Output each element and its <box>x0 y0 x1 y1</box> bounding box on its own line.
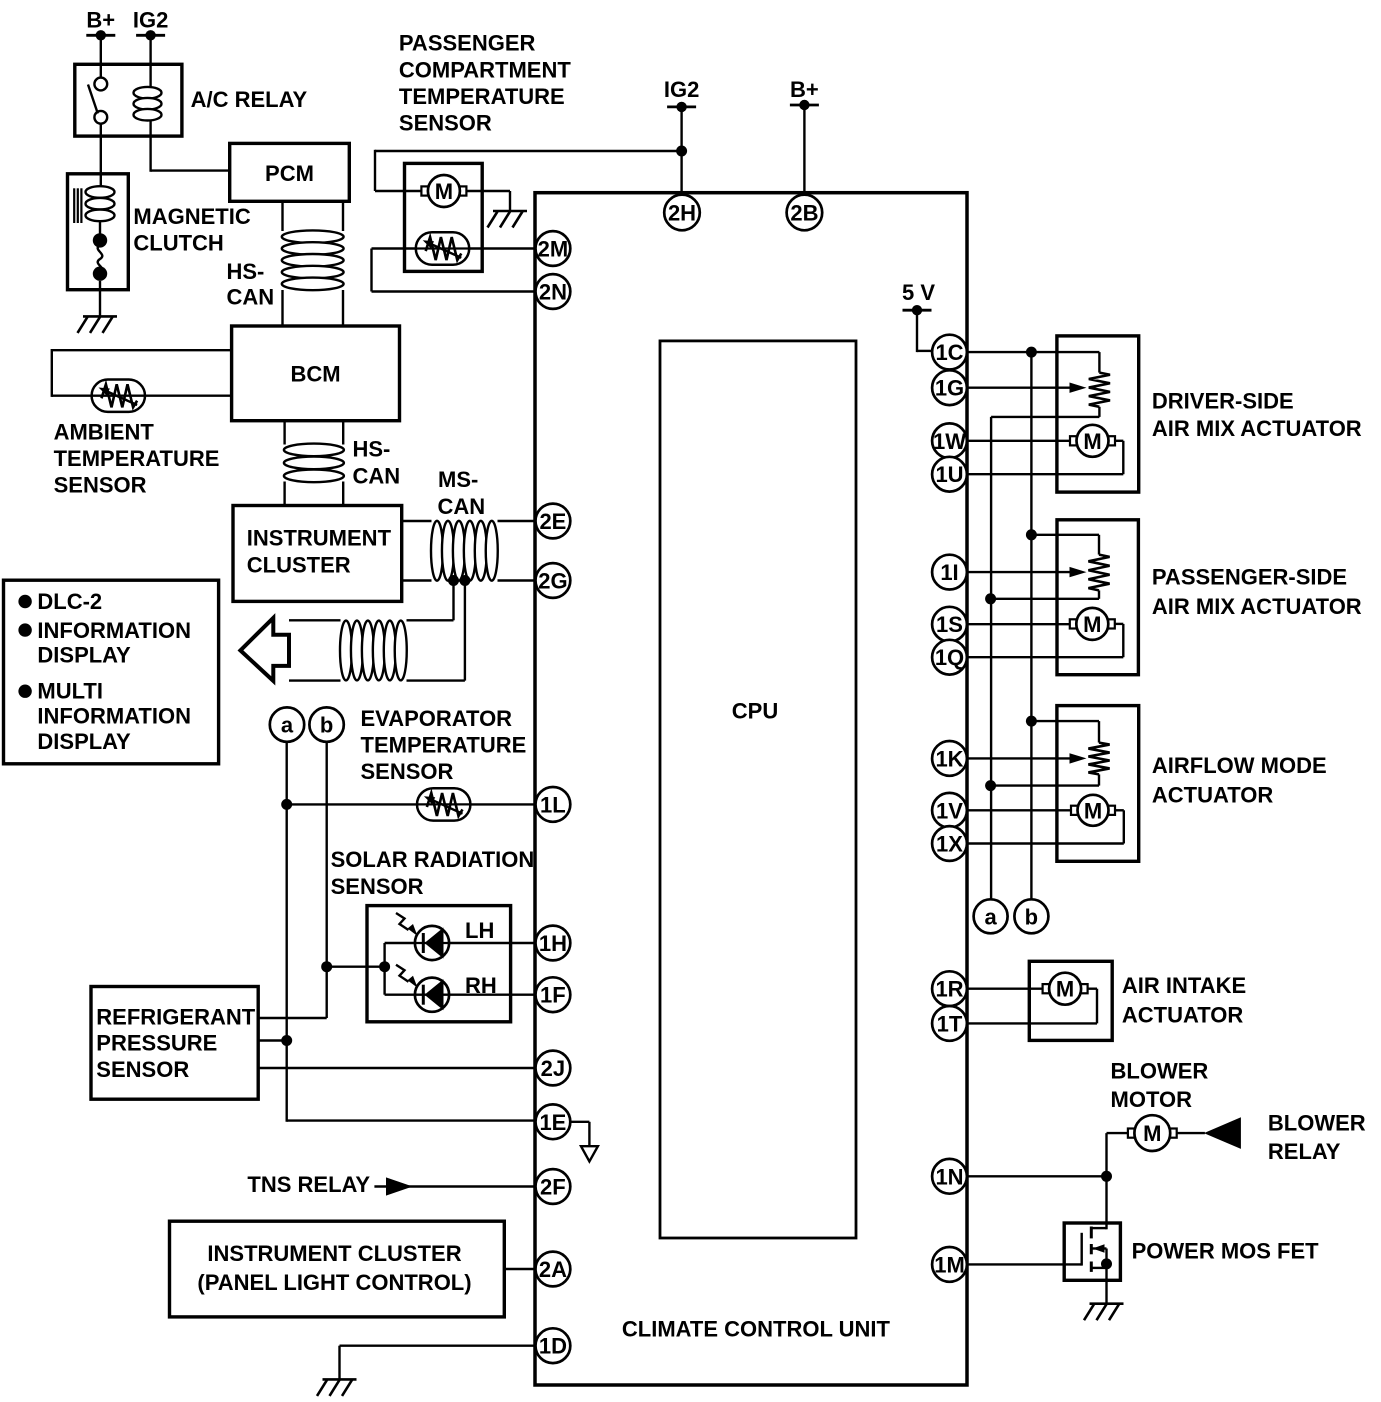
svg-text:BCM: BCM <box>290 362 340 387</box>
A/C relay switch contact <box>94 78 107 91</box>
svg-text:1F: 1F <box>540 983 566 1008</box>
MOSFET Q1 channel <box>1090 1227 1093 1239</box>
wire B+ to pin 2B <box>803 105 805 195</box>
pin 1C <box>932 335 967 370</box>
wire 5V to pin 1C <box>916 310 918 352</box>
airflow potentiometer R3 <box>1088 743 1109 775</box>
svg-text:1X: 1X <box>936 832 963 857</box>
svg-text:M: M <box>1056 977 1074 1002</box>
arrowhead 1G wiper <box>1070 383 1087 393</box>
wire pin 1N to blower line <box>967 1175 1107 1177</box>
pin 2J <box>536 1051 571 1086</box>
svg-text:b: b <box>1025 904 1038 929</box>
A/C relay coil <box>134 87 162 99</box>
svg-text:TEMPERATURE: TEMPERATURE <box>399 84 565 109</box>
svg-text:B+: B+ <box>86 8 115 33</box>
wire pin 1D to ground <box>340 1344 536 1346</box>
MOSFET Q1 drain stub <box>1091 1227 1106 1229</box>
svg-text:1S: 1S <box>936 612 963 637</box>
ambient temperature sensor thermistor <box>92 380 145 412</box>
arrowhead 1I wiper <box>1070 567 1087 577</box>
svg-text:AIR MIX ACTUATOR: AIR MIX ACTUATOR <box>1152 594 1362 619</box>
junction dot blower <box>1101 1171 1112 1182</box>
ground below 1D <box>323 1378 357 1381</box>
junction dot a-line at 1L wire <box>281 799 292 810</box>
svg-text:PASSENGER-SIDE: PASSENGER-SIDE <box>1152 565 1347 590</box>
svg-text:MULTI: MULTI <box>37 679 103 704</box>
wire fan motor to ground <box>466 190 510 192</box>
HS-CAN twisted pair PCM-BCM <box>282 230 344 243</box>
power MOS FET box <box>1064 1223 1120 1280</box>
A/C relay K1 box <box>75 64 182 136</box>
wire refrigerant sensor middle to a-line <box>258 1039 287 1041</box>
wire HS-CAN pair PCM to BCM <box>281 201 283 231</box>
node b (left) <box>309 707 343 741</box>
pin 2M <box>536 231 571 266</box>
wire pin 1C to driver potentiometer <box>967 351 1099 353</box>
wire b-line <box>1030 352 1032 900</box>
MOSFET Q1 source stub <box>1091 1267 1106 1269</box>
svg-text:1G: 1G <box>935 376 964 401</box>
wire thermistor to pin 2N <box>372 247 418 249</box>
block arrow to DLC-2 devices <box>240 618 289 681</box>
wire ambient temperature sensor loop <box>52 349 232 351</box>
svg-text:CAN: CAN <box>227 285 275 310</box>
svg-text:ACTUATOR: ACTUATOR <box>1152 782 1274 807</box>
passenger compartment thermistor <box>416 232 469 264</box>
svg-text:RH: RH <box>465 973 497 998</box>
wire evaporator sensor to pin 1L <box>287 803 536 805</box>
junction dot b-line at solar sensor wire <box>321 961 332 972</box>
wire LH photodiode to pin 1H <box>385 942 536 944</box>
svg-text:A/C RELAY: A/C RELAY <box>191 87 308 112</box>
node a (right) <box>974 899 1008 933</box>
svg-text:MOTOR: MOTOR <box>1111 1087 1193 1112</box>
svg-text:b: b <box>320 713 333 738</box>
junction dot MS-CAN tap 1 <box>448 575 459 586</box>
climate control unit box <box>535 193 967 1385</box>
pin 2F <box>536 1169 571 1204</box>
pin 1D <box>536 1328 571 1363</box>
wire MS-CAN tap drops <box>452 581 454 621</box>
junction dot IG2-sensor <box>676 146 687 157</box>
wire b-line down <box>326 741 328 1018</box>
pin 2H <box>664 195 700 231</box>
svg-text:SENSOR: SENSOR <box>361 759 454 784</box>
junction dot solar common <box>379 961 390 972</box>
wire pin 1V to airflow motor <box>967 809 1071 811</box>
wire pin 1I wiper <box>967 571 1072 573</box>
bullet INFORMATION DISPLAY <box>18 623 31 636</box>
svg-text:TEMPERATURE: TEMPERATURE <box>54 446 220 471</box>
pin 2G <box>536 563 571 598</box>
wire a-line down to 1E row <box>286 741 288 1122</box>
pin 1M <box>932 1247 967 1282</box>
svg-text:DLC-2: DLC-2 <box>37 589 102 614</box>
svg-text:CLIMATE CONTROL UNIT: CLIMATE CONTROL UNIT <box>622 1317 891 1342</box>
svg-text:POWER MOS FET: POWER MOS FET <box>1132 1238 1320 1263</box>
wire TNS relay to pin 2F <box>374 1185 535 1187</box>
pin 1U <box>932 457 967 492</box>
MS-CAN twisted pair to DLC <box>340 621 352 681</box>
magnetic clutch box <box>68 174 129 290</box>
svg-text:ACTUATOR: ACTUATOR <box>1122 1003 1244 1028</box>
svg-text:INFORMATION: INFORMATION <box>37 704 191 729</box>
wire pin 1S to passenger motor <box>967 623 1071 625</box>
magnetic clutch coil <box>86 186 115 198</box>
wire refrigerant sensor top to b-line <box>258 1017 327 1019</box>
junction dot passenger a-line <box>985 593 996 604</box>
junction dot MOSFET source <box>1101 1258 1112 1269</box>
air intake motor <box>1043 984 1050 993</box>
svg-text:SOLAR RADIATION: SOLAR RADIATION <box>331 847 535 872</box>
junction dot airflow a-line <box>985 780 996 791</box>
wire blower motor to 1N line <box>1107 1132 1129 1134</box>
svg-text:1Q: 1Q <box>935 645 964 670</box>
svg-text:BLOWER: BLOWER <box>1111 1059 1209 1084</box>
wire a-line <box>990 417 992 900</box>
svg-text:2J: 2J <box>541 1056 565 1081</box>
svg-text:M: M <box>1084 798 1102 823</box>
pin 2E <box>536 504 571 539</box>
arrowhead TNS relay <box>386 1177 413 1195</box>
wire intake motor to pin 1T <box>1087 988 1097 990</box>
MOSFET Q1 body arrow <box>1091 1247 1106 1249</box>
MS-CAN twisted pair cluster-CCU <box>431 521 443 581</box>
magnetic clutch core <box>73 188 75 223</box>
svg-text:DRIVER-SIDE: DRIVER-SIDE <box>1152 389 1294 414</box>
svg-text:SENSOR: SENSOR <box>331 874 424 899</box>
svg-text:1W: 1W <box>933 429 966 454</box>
svg-text:1C: 1C <box>935 340 963 365</box>
junction dot 1C b-line <box>1026 347 1037 358</box>
node B+ terminal (top middle) <box>790 104 819 107</box>
svg-text:2G: 2G <box>538 569 567 594</box>
svg-text:1I: 1I <box>940 560 958 585</box>
svg-text:CAN: CAN <box>353 463 401 488</box>
svg-text:IG2: IG2 <box>133 8 168 33</box>
airflow mode actuator box <box>1057 706 1139 862</box>
junction dot a-line refrigerant <box>281 1035 292 1046</box>
svg-text:2E: 2E <box>539 509 566 534</box>
svg-text:DISPLAY: DISPLAY <box>37 643 131 668</box>
svg-text:1L: 1L <box>540 792 566 817</box>
wire pin 1E offpage stub <box>570 1121 589 1123</box>
CPU box <box>660 341 856 1238</box>
pin 1K <box>932 741 967 776</box>
svg-text:LH: LH <box>465 918 494 943</box>
svg-text:MS-: MS- <box>438 467 478 492</box>
svg-text:MAGNETIC: MAGNETIC <box>133 204 250 229</box>
arrowhead 1K wiper <box>1070 753 1087 763</box>
airflow mode motor <box>1071 806 1078 815</box>
svg-text:1K: 1K <box>935 746 963 771</box>
wire driver pot bottom to a-line <box>1098 407 1100 417</box>
svg-text:AIRFLOW MODE: AIRFLOW MODE <box>1152 753 1327 778</box>
passenger-side actuator box <box>1057 520 1138 675</box>
wire MOSFET source to ground <box>1105 1249 1107 1304</box>
photodiode RH <box>415 978 449 1012</box>
pin 1V <box>932 793 967 828</box>
passenger air mix motor <box>1070 619 1077 628</box>
DLC-2 list box <box>4 580 219 764</box>
wire MS-CAN high to pin 2E <box>402 520 432 522</box>
node IG2 terminal (top left) <box>136 34 165 37</box>
svg-text:2M: 2M <box>538 237 569 262</box>
svg-text:RELAY: RELAY <box>1268 1139 1341 1164</box>
wire into blower fan motor <box>375 190 422 192</box>
wire thermistor to pin 2M <box>469 247 536 249</box>
pin 2B <box>787 195 823 231</box>
node a (left) <box>270 707 304 741</box>
svg-text:PRESSURE: PRESSURE <box>96 1030 217 1055</box>
svg-text:COMPARTMENT: COMPARTMENT <box>399 58 571 83</box>
wire HS-CAN pair BCM to instrument cluster <box>283 421 285 445</box>
wire pin 1G wiper <box>967 387 1072 389</box>
svg-text:1D: 1D <box>539 1334 567 1359</box>
svg-text:2B: 2B <box>790 201 818 226</box>
svg-text:CLUSTER: CLUSTER <box>247 553 351 578</box>
wire IG2 to pin 2H <box>680 107 682 195</box>
pin 1G <box>932 370 967 405</box>
svg-text:TEMPERATURE: TEMPERATURE <box>361 732 527 757</box>
svg-text:IG2: IG2 <box>664 77 699 102</box>
pin 1W <box>932 423 967 458</box>
pin 1Q <box>932 640 967 675</box>
svg-text:SENSOR: SENSOR <box>54 473 147 498</box>
wire airflow pot bottom to a-line <box>1098 774 1100 785</box>
svg-text:TNS RELAY: TNS RELAY <box>247 1172 370 1197</box>
solar radiation sensor box <box>367 906 511 1022</box>
svg-text:1R: 1R <box>935 977 963 1002</box>
photodiode LH <box>415 926 449 960</box>
magnetic clutch contact dots and wavy link <box>99 221 101 235</box>
wire passenger motor to pin 1Q <box>1114 623 1123 625</box>
BCM box <box>232 326 400 421</box>
svg-text:5 V: 5 V <box>902 280 935 305</box>
bullet MULTI INFORMATION DISPLAY <box>18 685 31 698</box>
wire pin 1M to MOSFET gate <box>967 1263 1082 1265</box>
wire switch to magnetic clutch <box>100 124 102 190</box>
svg-text:1M: 1M <box>934 1252 965 1277</box>
svg-text:REFRIGERANT: REFRIGERANT <box>96 1004 255 1029</box>
pin 1F <box>536 977 571 1012</box>
svg-text:CAN: CAN <box>438 494 486 519</box>
svg-text:a: a <box>984 904 997 929</box>
pin 1T <box>932 1006 967 1041</box>
arrowhead from blower relay <box>1204 1117 1241 1149</box>
node IG2 terminal (top middle) <box>667 106 696 109</box>
wire airflow pot feed <box>1031 720 1099 722</box>
svg-text:DISPLAY: DISPLAY <box>37 729 131 754</box>
pin 1I <box>932 555 967 590</box>
wire solar common vertical <box>383 943 385 995</box>
svg-text:AMBIENT: AMBIENT <box>54 419 155 444</box>
evaporator temperature sensor thermistor <box>417 788 470 820</box>
pin 1S <box>932 607 967 642</box>
junction dot passenger feed <box>1026 529 1037 540</box>
pin 1X <box>932 826 967 861</box>
svg-text:INSTRUMENT: INSTRUMENT <box>247 525 392 550</box>
pin 1R <box>932 971 967 1006</box>
svg-text:1E: 1E <box>539 1110 566 1135</box>
node B+ terminal (top left) <box>86 34 115 37</box>
node 5V terminal <box>903 309 932 312</box>
MOSFET Q1 gate <box>1080 1233 1082 1266</box>
refrigerant pressure sensor box <box>91 987 258 1100</box>
instrument cluster box <box>233 506 402 602</box>
driver air mix motor <box>1070 436 1077 445</box>
ground fan motor <box>493 210 527 213</box>
PCM box <box>230 143 350 201</box>
bullet DLC-2 <box>18 595 31 608</box>
instrument cluster panel light box <box>170 1221 505 1317</box>
wire IG2 down through A/C relay coil to PCM <box>149 35 151 172</box>
svg-text:INFORMATION: INFORMATION <box>37 618 191 643</box>
svg-text:(PANEL LIGHT CONTROL): (PANEL LIGHT CONTROL) <box>197 1270 471 1295</box>
svg-text:2H: 2H <box>668 201 696 226</box>
svg-text:PCM: PCM <box>265 161 314 186</box>
wire MS-CAN stub pair high <box>289 619 341 621</box>
svg-text:SENSOR: SENSOR <box>399 111 492 136</box>
pin 2A <box>536 1252 571 1287</box>
svg-text:1U: 1U <box>935 462 963 487</box>
node b (right) <box>1014 899 1048 933</box>
svg-text:HS-: HS- <box>227 259 265 284</box>
wire MS-CAN stub pair low <box>289 679 341 681</box>
wire pin 1W to driver motor <box>967 440 1071 442</box>
wire passenger pot bottom to a-line <box>1098 590 1100 598</box>
wire sensor loop to IG2 node <box>375 150 682 152</box>
wire passenger pot feed <box>1031 534 1099 536</box>
ground below magnetic clutch <box>83 315 117 318</box>
passenger compartment fan motor <box>421 186 428 195</box>
pin 1E <box>536 1104 571 1139</box>
ground below MOSFET <box>1090 1302 1124 1305</box>
svg-text:M: M <box>1143 1121 1161 1146</box>
wire B+ to A/C relay switch <box>100 35 102 78</box>
svg-text:SENSOR: SENSOR <box>96 1057 189 1082</box>
svg-text:AIR INTAKE: AIR INTAKE <box>1122 973 1246 998</box>
blower motor <box>1128 1129 1135 1138</box>
svg-text:HS-: HS- <box>353 437 391 462</box>
svg-text:B+: B+ <box>790 77 819 102</box>
svg-text:CLUTCH: CLUTCH <box>133 231 223 256</box>
svg-text:AIR MIX ACTUATOR: AIR MIX ACTUATOR <box>1152 416 1362 441</box>
offpage triangle below 1E <box>581 1146 598 1161</box>
svg-text:2A: 2A <box>539 1257 567 1282</box>
svg-text:1H: 1H <box>539 931 567 956</box>
svg-text:EVAPORATOR: EVAPORATOR <box>361 706 513 731</box>
driver-side actuator box <box>1057 336 1139 492</box>
svg-text:BLOWER: BLOWER <box>1268 1111 1366 1136</box>
svg-text:1V: 1V <box>936 798 963 823</box>
wire pin 1K wiper <box>967 757 1072 759</box>
pin 1L <box>536 787 571 822</box>
svg-text:a: a <box>281 713 294 738</box>
passenger potentiometer R2 <box>1088 555 1109 591</box>
svg-text:M: M <box>435 179 453 204</box>
svg-text:M: M <box>1083 612 1101 637</box>
wire panel light box to pin 2A <box>504 1268 535 1270</box>
svg-text:M: M <box>1083 429 1101 454</box>
svg-text:2F: 2F <box>540 1175 566 1200</box>
passenger compartment sensor box <box>405 163 483 271</box>
svg-text:INSTRUMENT CLUSTER: INSTRUMENT CLUSTER <box>207 1241 461 1266</box>
junction dot MS-CAN tap 2 <box>459 575 470 586</box>
svg-text:1T: 1T <box>937 1011 963 1036</box>
wire refrigerant sensor to pin 2J <box>258 1067 535 1069</box>
svg-text:CPU: CPU <box>732 699 778 724</box>
HS-CAN twisted pair BCM-cluster <box>284 444 344 457</box>
wire blower motor to relay arrow <box>1176 1132 1205 1134</box>
wire b-line to solar sensor common <box>327 966 385 968</box>
wire airflow motor to pin 1X <box>1115 809 1124 811</box>
junction dot airflow feed <box>1026 716 1037 727</box>
pin 2N <box>536 274 571 309</box>
wire driver motor to pin 1U <box>1115 440 1124 442</box>
svg-text:1N: 1N <box>935 1164 963 1189</box>
wire pin 1R to intake motor <box>967 988 1044 990</box>
svg-text:2N: 2N <box>539 280 567 305</box>
wire RH photodiode to pin 1F <box>385 994 536 996</box>
driver potentiometer R1 <box>1089 373 1110 407</box>
pin 1H <box>536 926 571 961</box>
pin 1N <box>932 1159 967 1194</box>
wire MS-CAN low to pin 2G <box>402 579 432 581</box>
svg-text:PASSENGER: PASSENGER <box>399 31 536 56</box>
wire magnetic clutch to ground <box>99 281 101 317</box>
air intake actuator box <box>1029 961 1112 1040</box>
